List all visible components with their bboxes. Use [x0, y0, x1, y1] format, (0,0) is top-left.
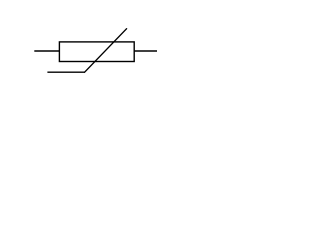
wire: right lead — [134, 50, 157, 52]
varistor diagonal stroke — [85, 29, 127, 72]
wire: left lead — [34, 50, 59, 52]
varistor diagonal foot (horizontal tail) — [47, 71, 84, 73]
resistor body (varistor RV1 rectangle) — [59, 42, 134, 62]
